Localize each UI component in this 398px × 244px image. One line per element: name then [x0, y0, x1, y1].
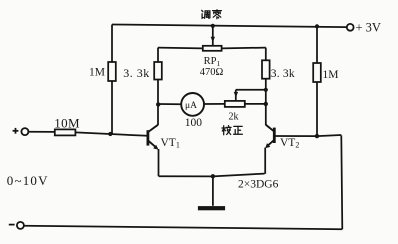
svg-text:0~10V: 0~10V: [7, 173, 49, 188]
svg-text:470Ω: 470Ω: [200, 67, 224, 78]
svg-text:3. 3k: 3. 3k: [271, 68, 295, 80]
svg-text:μA: μA: [185, 101, 197, 111]
svg-text:1M: 1M: [89, 67, 105, 79]
svg-text:1M: 1M: [323, 69, 339, 81]
svg-text:3. 3k: 3. 3k: [123, 66, 150, 80]
svg-text:10M: 10M: [54, 115, 80, 130]
svg-text:2k: 2k: [229, 111, 239, 122]
svg-text:100: 100: [185, 117, 203, 129]
svg-text:+ 3V: + 3V: [356, 21, 381, 35]
svg-text:2×3DG6: 2×3DG6: [238, 179, 279, 191]
